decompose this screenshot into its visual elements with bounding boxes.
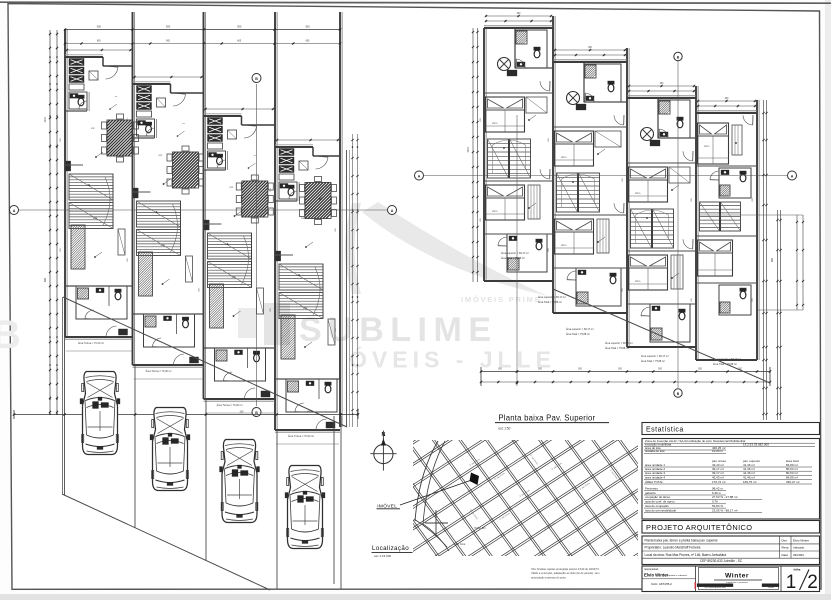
svg-text:Resp: Resp	[782, 546, 789, 550]
svg-text:Área Total = 75,88 m²: Área Total = 75,88 m²	[605, 347, 629, 350]
svg-text:coz.: coz.	[91, 128, 96, 130]
svg-text:43,43 m²: 43,43 m²	[712, 475, 724, 479]
svg-text:dorm.: dorm.	[492, 122, 498, 125]
svg-text:Área Térrea = 70,00 m²: Área Térrea = 70,00 m²	[78, 342, 104, 345]
svg-text:300: 300	[578, 368, 583, 371]
svg-text:Área Total = 75,88 m²: Área Total = 75,88 m²	[641, 360, 665, 363]
svg-text:41,46 m²: 41,46 m²	[743, 475, 755, 479]
svg-text:PROJETO ARQUITETÔNICO: PROJETO ARQUITETÔNICO	[646, 523, 752, 532]
svg-text:300: 300	[305, 25, 310, 29]
svg-text:27,63 % - 27,88 m²: 27,63 % - 27,88 m²	[712, 495, 738, 499]
svg-text:taxa de ocupação: taxa de ocupação	[645, 504, 669, 508]
svg-text:esc 1:50: esc 1:50	[498, 426, 510, 430]
svg-text:170,72 m²: 170,72 m²	[712, 480, 726, 484]
svg-text:84,89 m²: 84,89 m²	[786, 475, 798, 479]
svg-text:Joinville: Joinville	[768, 587, 774, 589]
svg-text:coz.: coz.	[301, 218, 306, 220]
svg-text:gabarito: gabarito	[645, 491, 656, 495]
svg-text:TERR. RN: TERR. RN	[474, 527, 486, 530]
svg-text:300: 300	[166, 25, 171, 29]
svg-text:dorm.: dorm.	[561, 156, 567, 159]
svg-text:CEP 89230-632 Joinville - SC: CEP 89230-632 Joinville - SC	[700, 559, 743, 563]
svg-text:dorm.: dorm.	[704, 145, 710, 148]
svg-text:6,36 m: 6,36 m	[712, 491, 722, 495]
svg-text:Área Térrea = 70,00 m²: Área Térrea = 70,00 m²	[288, 435, 314, 438]
svg-text:CPU JLLE: CPU JLLE	[454, 543, 466, 546]
svg-text:880: 880	[771, 257, 774, 262]
svg-text:Winter: Winter	[725, 573, 749, 580]
svg-text:Local da obra: Rua Max Prunes,: Local da obra: Rua Max Prunes, nº 146, B…	[645, 553, 727, 557]
svg-text:Proprietário: Leandro March: Proprietário: Leandro Marchioff Ferreira	[645, 546, 701, 550]
svg-text:sala: sala	[232, 277, 237, 279]
svg-text:Planta baixa pav. térreo e pla: Planta baixa pav. térreo e planta baixa …	[645, 539, 719, 543]
svg-text:wc: wc	[254, 155, 256, 157]
svg-text:N: N	[381, 432, 385, 438]
svg-text:300: 300	[307, 411, 312, 414]
svg-text:Área Térrea = 70,00 m²: Área Térrea = 70,00 m²	[146, 370, 172, 373]
svg-text:Área Total = 75,88 m²: Área Total = 75,88 m²	[501, 257, 525, 260]
svg-text:Área Térrea = 70,00 m²: Área Térrea = 70,00 m²	[217, 404, 243, 407]
svg-text:Área superior = 38,17 m²: Área superior = 38,17 m²	[566, 328, 594, 331]
svg-text:10,00 m: 10,00 m	[712, 449, 723, 453]
svg-text:300: 300	[698, 368, 703, 371]
svg-text:dorm.: dorm.	[561, 244, 567, 247]
svg-text:sala: sala	[303, 308, 308, 310]
svg-text:53,84 %: 53,84 %	[712, 504, 723, 508]
svg-text:wc: wc	[183, 123, 185, 125]
svg-text:300: 300	[237, 25, 242, 29]
svg-text:1: 1	[786, 572, 797, 593]
svg-text:A: A	[391, 209, 394, 213]
svg-text:165,75 m²: 165,75 m²	[743, 480, 757, 484]
svg-text:Des.: Des.	[782, 539, 788, 543]
svg-text:Área superior = 38,17 m²: Área superior = 38,17 m²	[501, 252, 529, 255]
svg-text:sala: sala	[93, 218, 98, 220]
svg-text:2: 2	[807, 572, 818, 593]
svg-text:SUBLIME: SUBLIME	[299, 311, 498, 349]
svg-text:IMÓVEL: IMÓVEL	[377, 502, 397, 509]
svg-text:wc: wc	[115, 96, 117, 98]
svg-text:A: A	[13, 209, 16, 213]
svg-text:B: B	[0, 313, 21, 357]
svg-text:Estatística: Estatística	[646, 427, 684, 434]
svg-text:wc: wc	[325, 186, 327, 188]
svg-text:folha: folha	[794, 568, 801, 572]
svg-text:Data: Data	[782, 553, 789, 557]
svg-text:arquiteto e urbanista: arquiteto e urbanista	[667, 574, 688, 577]
svg-text:Obs: Dívidas sujeitas protegid: Obs: Dívidas sujeitas protegidas pela le…	[531, 567, 600, 571]
svg-text:1015: 1015	[44, 117, 47, 123]
svg-text:responsável:: responsável:	[644, 567, 659, 571]
svg-text:testada do lote: testada do lote	[645, 449, 665, 453]
svg-text:Elvio Winter: Elvio Winter	[644, 573, 669, 578]
svg-text:Área superior = 38,17 m²: Área superior = 38,17 m²	[605, 342, 633, 345]
svg-text:Área Total = 75,88 m²: Área Total = 75,88 m²	[538, 301, 562, 304]
svg-text:300: 300	[658, 368, 663, 371]
svg-text:Planta baixa Pav. Superior: Planta baixa Pav. Superior	[498, 414, 595, 423]
svg-text:300: 300	[618, 368, 623, 371]
svg-text:300: 300	[538, 368, 543, 371]
svg-text:Área superior = 38,17 m²: Área superior = 38,17 m²	[538, 296, 566, 299]
svg-text:dorm.: dorm.	[635, 192, 641, 195]
svg-text:coz.: coz.	[230, 187, 235, 189]
svg-text:sala: sala	[161, 245, 166, 247]
svg-text:880: 880	[44, 277, 47, 282]
svg-text:área unidade 4: área unidade 4	[645, 475, 665, 479]
svg-text:300: 300	[240, 411, 245, 414]
svg-text:ocupação do álneo: ocupação do álneo	[645, 495, 671, 499]
svg-text:IMÓVEIS PRIME: IMÓVEIS PRIME	[461, 295, 542, 304]
svg-text:336,47 m²: 336,47 m²	[786, 480, 800, 484]
svg-text:23,05 % - 88,17 m²: 23,05 % - 88,17 m²	[712, 508, 738, 512]
svg-text:CAU: A67478-2: CAU: A67478-2	[651, 582, 672, 586]
svg-text:300: 300	[97, 25, 102, 29]
svg-text:Área Total = 75,88 m²: Área Total = 75,88 m²	[566, 333, 590, 336]
svg-text:Localização: Localização	[372, 545, 409, 552]
svg-text:ÓVEIS - JLLE: ÓVEIS - JLLE	[349, 346, 556, 373]
svg-text:B: B	[255, 77, 258, 81]
svg-text:Indicado: Indicado	[793, 546, 805, 550]
svg-text:autorização expressa do autor.: autorização expressa do autor.	[531, 575, 567, 579]
svg-text:Área superior = 38,17 m²: Área superior = 38,17 m²	[641, 355, 669, 358]
svg-text:Válido a execução, adaptação a: Válido a execução, adaptação ao título (…	[531, 571, 600, 575]
svg-text:esc 1:15.000: esc 1:15.000	[374, 554, 392, 558]
svg-text:dorm.: dorm.	[492, 210, 498, 213]
svg-text:coz.: coz.	[159, 155, 164, 157]
svg-text:dorm.: dorm.	[635, 280, 641, 283]
svg-text:Elvio Winter: Elvio Winter	[793, 539, 809, 543]
svg-text:Rua Tenente Antônio João: Rua Tenente Antônio João	[704, 586, 725, 589]
svg-text:A: A	[791, 174, 794, 178]
svg-text:13.2.53.33.682.000: 13.2.53.33.682.000	[743, 442, 769, 446]
svg-text:03/2023: 03/2023	[793, 553, 804, 557]
svg-text:ÁREA TOTAL: ÁREA TOTAL	[645, 480, 664, 484]
svg-text:1015: 1015	[467, 147, 470, 153]
svg-text:300: 300	[498, 368, 503, 371]
svg-text:taxa de permeabilidade: taxa de permeabilidade	[645, 508, 677, 512]
svg-text:A: A	[418, 174, 421, 178]
